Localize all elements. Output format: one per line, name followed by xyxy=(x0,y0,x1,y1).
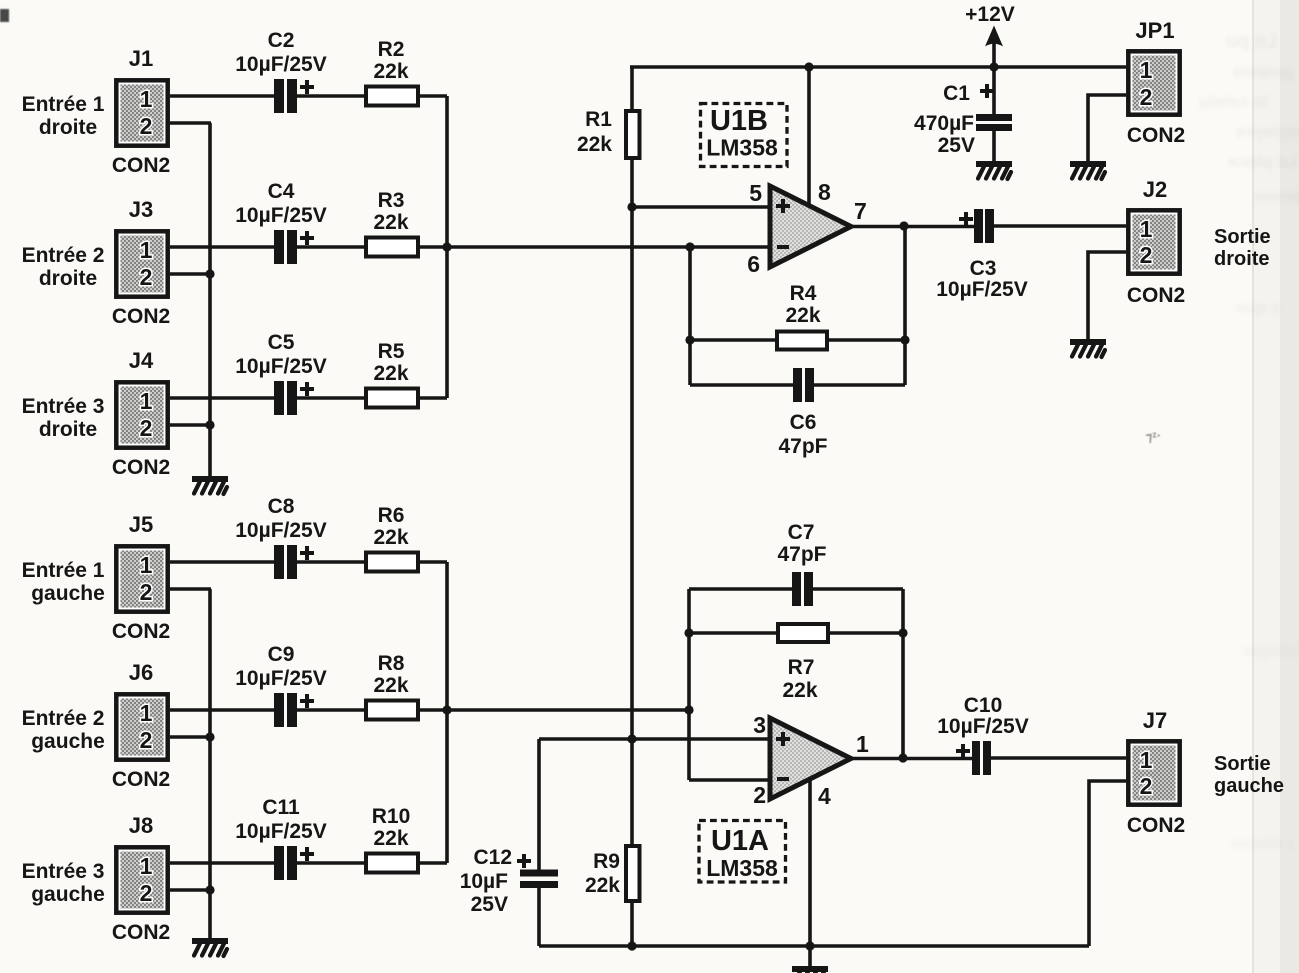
wire C9 to R8 xyxy=(297,708,366,712)
svg-text:2: 2 xyxy=(1140,242,1153,268)
wire J6 pin1 to C9 xyxy=(170,708,274,712)
svg-text:R7: R7 xyxy=(788,656,815,679)
wire C2 to R2 xyxy=(297,94,366,98)
ground (C1) xyxy=(976,161,1012,179)
svg-text:CON2: CON2 xyxy=(1127,284,1185,307)
svg-text:1: 1 xyxy=(140,86,153,112)
svg-text:8: 8 xyxy=(818,179,831,205)
junction U1B inverting input / feedback xyxy=(685,242,694,251)
wire: rail to C1 xyxy=(992,67,996,114)
wire J1 pin1 to C2 xyxy=(170,94,274,98)
svg-text:Sortie: Sortie xyxy=(1214,226,1271,248)
svg-text:2: 2 xyxy=(140,415,153,441)
svg-text:droite: droite xyxy=(39,267,97,290)
op-amp U1B (LM358) xyxy=(747,179,867,277)
capacitor C5 10µF/25V xyxy=(235,331,327,415)
resistor R2 22k xyxy=(366,38,418,106)
junction U1A output / feedback xyxy=(898,753,907,762)
svg-text:C6: C6 xyxy=(790,411,817,434)
svg-text:Entrée 3: Entrée 3 xyxy=(22,395,105,418)
wire: U1A feedback left leg xyxy=(687,589,691,780)
wire: bias wire to U1A pin 3 xyxy=(539,737,770,741)
svg-text:C7: C7 xyxy=(788,521,815,544)
connector J8 (CON2) xyxy=(112,813,170,944)
wire: summing node to U1A inverting input xyxy=(447,708,689,712)
capacitor C12 10µF/25V xyxy=(460,846,558,916)
svg-text:10µF/25V: 10µF/25V xyxy=(235,820,327,843)
wire R2 to bus xyxy=(418,94,447,98)
capacitor C11 10µF/25V xyxy=(235,796,327,880)
svg-text:C11: C11 xyxy=(262,796,300,819)
svg-text:C4: C4 xyxy=(268,180,295,203)
junction R8 output xyxy=(442,705,451,714)
svg-text:25V: 25V xyxy=(471,893,508,916)
resistor R6 22k xyxy=(366,504,418,572)
ground (input bus left channel) xyxy=(192,938,228,956)
svg-text:C3: C3 xyxy=(970,257,997,280)
svg-text:J3: J3 xyxy=(129,197,153,222)
svg-text:1: 1 xyxy=(1140,216,1153,242)
svg-text:C12: C12 xyxy=(473,846,512,869)
svg-text:47pF: 47pF xyxy=(777,543,826,566)
faint ink bleed-through spots xyxy=(1226,30,1277,53)
svg-text:47pF: 47pF xyxy=(778,435,827,458)
wire: U1B feedback left leg xyxy=(688,247,692,385)
svg-text:2: 2 xyxy=(140,727,153,753)
svg-text:10µF/25V: 10µF/25V xyxy=(937,715,1029,738)
svg-text:470µF: 470µF xyxy=(914,112,974,135)
paper scan artifacts: right edge band xyxy=(1253,0,1299,973)
svg-text:5: 5 xyxy=(749,180,762,206)
connector J3 (CON2) xyxy=(112,197,170,328)
svg-text:1: 1 xyxy=(140,700,153,726)
ground (U1A pin 4) xyxy=(792,966,828,973)
wire: U1B output xyxy=(851,225,974,229)
svg-text:R6: R6 xyxy=(378,504,405,527)
svg-text:R10: R10 xyxy=(372,805,411,828)
wire: U1A inverting input wire xyxy=(689,778,770,782)
node label: Sortie droite xyxy=(1214,226,1271,270)
wire R5 to bus xyxy=(418,396,447,400)
op-amp U1A (LM358) xyxy=(753,712,869,809)
junction R7 right xyxy=(898,628,907,637)
junction bias / U1A pin3 xyxy=(627,734,636,743)
resistor R8 22k xyxy=(366,652,418,720)
svg-text:3: 3 xyxy=(753,712,766,738)
wire: bottom ground rail xyxy=(539,944,1089,948)
svg-text:gauche: gauche xyxy=(31,730,105,753)
svg-text:1: 1 xyxy=(140,853,153,879)
junction J6 pin2 xyxy=(205,732,214,741)
svg-text:R1: R1 xyxy=(585,108,612,131)
wire: R4 feedback wire xyxy=(690,338,905,342)
node label: Entrée 1 gauche xyxy=(22,559,105,605)
wire: bias to U1B pin 5 xyxy=(632,205,770,209)
wire: input ground bus (left channel) xyxy=(208,589,212,938)
svg-text:10µF/25V: 10µF/25V xyxy=(936,278,1028,301)
svg-text:gauche: gauche xyxy=(1214,775,1284,797)
capacitor C8 10µF/25V xyxy=(235,495,327,579)
svg-text:LM358: LM358 xyxy=(706,135,778,161)
svg-text:CON2: CON2 xyxy=(112,305,170,328)
svg-text:CON2: CON2 xyxy=(112,154,170,177)
node label: Entrée 3 gauche xyxy=(22,860,105,906)
wire J3 pin2 to ground bus xyxy=(170,272,211,276)
svg-text:R8: R8 xyxy=(378,652,405,675)
svg-text:22k: 22k xyxy=(373,211,408,234)
wire: C1 to ground xyxy=(992,131,996,161)
svg-text:R2: R2 xyxy=(378,38,405,61)
svg-text:C10: C10 xyxy=(964,694,1003,717)
junction C1 / rail xyxy=(989,62,998,71)
svg-text:Entrée 3: Entrée 3 xyxy=(22,860,105,883)
svg-text:10µF/25V: 10µF/25V xyxy=(235,355,327,378)
svg-text:10µF/25V: 10µF/25V xyxy=(235,519,327,542)
node label: Sortie gauche xyxy=(1214,753,1284,797)
junction R9 / ground rail xyxy=(627,941,636,950)
junction U1B output / feedback xyxy=(899,221,908,230)
svg-text:22k: 22k xyxy=(585,874,620,897)
capacitor C10 10µF/25V xyxy=(937,694,1029,775)
svg-text:2: 2 xyxy=(140,880,153,906)
wire J5 pin2 to ground bus xyxy=(170,587,211,591)
wire J4 pin2 to ground bus xyxy=(170,423,211,427)
wire: +12V rail to R1 xyxy=(630,67,634,109)
svg-text:1: 1 xyxy=(140,237,153,263)
resistor R7 22k xyxy=(778,624,828,702)
junction J3 pin2 xyxy=(205,269,214,278)
svg-text:CON2: CON2 xyxy=(112,768,170,791)
svg-text:Sortie: Sortie xyxy=(1214,753,1271,775)
wire: C12 to ground rail xyxy=(537,888,541,946)
connector J4 (CON2) xyxy=(112,348,170,479)
svg-text:2: 2 xyxy=(753,782,766,808)
svg-text:C5: C5 xyxy=(268,331,295,354)
svg-text:25V: 25V xyxy=(938,134,975,157)
svg-text:22k: 22k xyxy=(373,674,408,697)
wire J1 pin2 to ground bus xyxy=(170,121,211,125)
svg-text:1: 1 xyxy=(140,388,153,414)
wire: R9 to ground rail xyxy=(630,900,634,946)
wire: C6 feedback wire right xyxy=(814,383,905,387)
svg-text:Entrée 2: Entrée 2 xyxy=(22,244,105,267)
wire: summing bus right channel xyxy=(445,96,449,398)
capacitor C3 10µF/25V xyxy=(936,209,1028,301)
svg-text:10µF/25V: 10µF/25V xyxy=(235,204,327,227)
svg-text:22k: 22k xyxy=(782,679,817,702)
svg-text:gauche: gauche xyxy=(31,883,105,906)
svg-text:1: 1 xyxy=(1140,747,1153,773)
wire: J2 pin 2 to ground xyxy=(1088,252,1126,339)
wire: JP1 pin 2 to ground xyxy=(1088,95,1126,161)
svg-text:Entrée 2: Entrée 2 xyxy=(22,707,105,730)
capacitor C7 47pF xyxy=(777,521,826,606)
capacitor C4 10µF/25V xyxy=(235,180,327,264)
svg-text:CON2: CON2 xyxy=(1127,814,1185,837)
svg-text:2: 2 xyxy=(140,264,153,290)
connector J5 (CON2) xyxy=(112,512,170,643)
node label: Entrée 3 droite xyxy=(22,395,105,441)
junction R4 right xyxy=(900,335,909,344)
svg-text:22k: 22k xyxy=(373,827,408,850)
power +12V xyxy=(965,3,1015,67)
scan speck top-left xyxy=(0,9,9,22)
svg-text:2: 2 xyxy=(1140,773,1153,799)
svg-text:J6: J6 xyxy=(129,660,153,685)
svg-text:J8: J8 xyxy=(129,813,153,838)
wire J6 pin2 to ground bus xyxy=(170,735,211,739)
wire: U1B feedback right leg xyxy=(903,226,907,385)
capacitor C2 10µF/25V xyxy=(235,29,327,113)
wire C11 to R10 xyxy=(297,861,366,865)
ground (J2) xyxy=(1070,339,1106,357)
svg-text:22k: 22k xyxy=(577,133,612,156)
resistor R4 22k xyxy=(777,282,827,350)
svg-text:gauche: gauche xyxy=(31,582,105,605)
node label: Entrée 2 droite xyxy=(22,244,105,290)
svg-text:LM358: LM358 xyxy=(706,855,778,881)
capacitor C6 47pF xyxy=(778,368,827,458)
junction R4 left xyxy=(685,335,694,344)
junction J8 pin2 xyxy=(205,885,214,894)
wire J8 pin1 to C11 xyxy=(170,861,274,865)
wire J3 pin1 to C4 xyxy=(170,245,274,249)
wire C8 to R6 xyxy=(297,560,366,564)
svg-text:J1: J1 xyxy=(129,46,153,71)
svg-text:J5: J5 xyxy=(129,512,153,537)
capacitor C1 470µF/25V xyxy=(914,82,1012,157)
svg-text:R9: R9 xyxy=(593,850,620,873)
svg-text:Entrée 1: Entrée 1 xyxy=(22,559,105,582)
wire J4 pin1 to C5 xyxy=(170,396,274,400)
svg-text:U1A: U1A xyxy=(711,825,769,857)
svg-text:1: 1 xyxy=(856,731,869,757)
resistor R1 22k xyxy=(577,108,640,158)
svg-text:7: 7 xyxy=(854,198,867,224)
wire: bias bus (R1 to R9) xyxy=(630,160,634,848)
wire: input ground bus (right channel) xyxy=(208,123,212,476)
wire R6 to bus xyxy=(418,560,447,564)
junction U1B pin8 / rail xyxy=(804,62,813,71)
ground (JP1) xyxy=(1070,161,1106,179)
wire: U1B pin 8 to +12V rail xyxy=(807,67,811,206)
wire: C7 feedback wire left xyxy=(689,587,792,591)
wire: C6 feedback wire left xyxy=(690,383,793,387)
svg-text:1: 1 xyxy=(140,552,153,578)
svg-text:CON2: CON2 xyxy=(112,456,170,479)
junction R7 left xyxy=(684,628,693,637)
wire: U1A output xyxy=(851,757,972,761)
resistor R3 22k xyxy=(366,189,418,257)
svg-text:+12V: +12V xyxy=(965,3,1015,26)
svg-text:J2: J2 xyxy=(1143,177,1167,202)
wire J5 pin1 to C8 xyxy=(170,560,274,564)
ground (input bus right channel) xyxy=(192,476,228,494)
svg-text:C8: C8 xyxy=(268,495,295,518)
svg-text:CON2: CON2 xyxy=(112,921,170,944)
wire R10 to bus xyxy=(418,861,447,865)
svg-text:Entrée 1: Entrée 1 xyxy=(22,93,105,116)
wire: +12V rail xyxy=(630,65,1126,69)
svg-text:droite: droite xyxy=(39,418,97,441)
svg-text:R3: R3 xyxy=(378,189,405,212)
junction bias / U1B pin5 xyxy=(627,202,636,211)
svg-text:C9: C9 xyxy=(268,643,295,666)
wire R3 to bus xyxy=(418,245,447,249)
junction J4 pin2 xyxy=(205,420,214,429)
wire: J7 pin 2 to ground rail xyxy=(1089,781,1126,946)
capacitor C9 10µF/25V xyxy=(235,643,327,727)
wire: summing node to U1B pin 6 xyxy=(447,245,770,249)
connector J7 (CON2) xyxy=(1127,708,1185,837)
wire C4 to R3 xyxy=(297,245,366,249)
junction R3 output xyxy=(442,242,451,251)
svg-text:droite: droite xyxy=(39,116,97,139)
svg-text:1: 1 xyxy=(1140,57,1153,83)
svg-text:2: 2 xyxy=(1140,84,1153,110)
wire: bias node to C12 xyxy=(537,739,541,870)
svg-text:R4: R4 xyxy=(790,282,817,305)
U1B label box xyxy=(701,104,788,167)
svg-text:22k: 22k xyxy=(373,60,408,83)
svg-text:C1: C1 xyxy=(943,82,970,105)
wire: U1A pin 4 to ground rail xyxy=(808,779,812,966)
svg-text:J7: J7 xyxy=(1143,708,1167,733)
wire R8 to bus xyxy=(418,708,447,712)
svg-text:C2: C2 xyxy=(268,29,295,52)
wire: C3 to J2 pin 1 xyxy=(994,224,1126,228)
svg-text:2: 2 xyxy=(140,113,153,139)
wire: U1A feedback right leg xyxy=(901,589,905,758)
svg-text:2: 2 xyxy=(140,579,153,605)
wire: C10 to J7 pin 1 xyxy=(991,756,1126,760)
resistor R5 22k xyxy=(366,340,418,408)
resistor R9 22k xyxy=(585,846,640,901)
node label: Entrée 2 gauche xyxy=(22,707,105,753)
node label: Entrée 1 droite xyxy=(22,93,105,139)
wire: C7 feedback wire right xyxy=(813,587,903,591)
svg-text:R5: R5 xyxy=(378,340,405,363)
svg-text:6: 6 xyxy=(747,251,760,277)
svg-text:JP1: JP1 xyxy=(1135,18,1174,43)
resistor R10 22k xyxy=(366,805,418,873)
svg-text:J4: J4 xyxy=(129,348,154,373)
svg-text:CON2: CON2 xyxy=(1127,124,1185,147)
svg-text:U1B: U1B xyxy=(710,105,768,137)
wire J8 pin2 to ground bus xyxy=(170,888,211,892)
wire: summing bus left channel xyxy=(445,562,449,863)
junction U1A pin4 / ground rail xyxy=(805,941,814,950)
svg-text:CON2: CON2 xyxy=(112,620,170,643)
svg-text:4: 4 xyxy=(818,783,831,809)
svg-text:22k: 22k xyxy=(373,362,408,385)
svg-text:10µF: 10µF xyxy=(460,870,508,893)
wire: R7 feedback wire xyxy=(689,631,903,635)
svg-text:22k: 22k xyxy=(373,526,408,549)
connector J1 (CON2) xyxy=(112,46,170,177)
connector JP1 (CON2) xyxy=(1127,18,1185,147)
svg-text:10µF/25V: 10µF/25V xyxy=(235,53,327,76)
svg-text:22k: 22k xyxy=(785,304,820,327)
connector J2 (CON2) xyxy=(1127,177,1185,307)
U1A label box xyxy=(699,821,786,883)
junction summing/feedback U1A xyxy=(684,705,693,714)
svg-text:droite: droite xyxy=(1214,248,1270,270)
wire C5 to R5 xyxy=(297,396,366,400)
svg-text:10µF/25V: 10µF/25V xyxy=(235,667,327,690)
connector J6 (CON2) xyxy=(112,660,170,791)
